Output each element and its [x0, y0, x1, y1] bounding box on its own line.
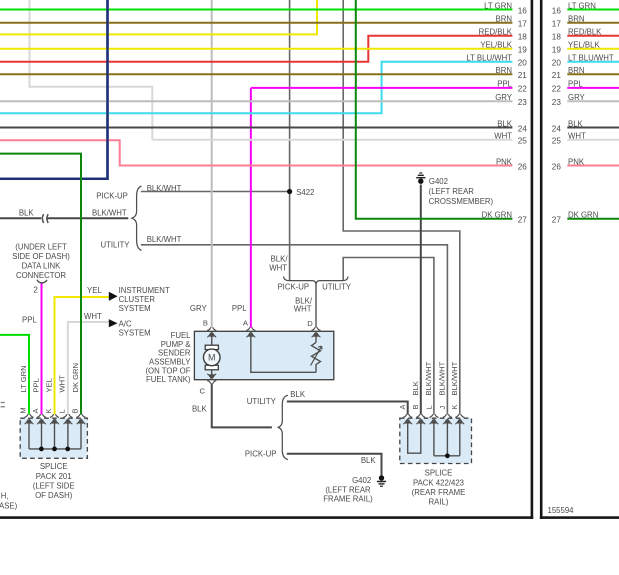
svg-text:FRAME RAIL): FRAME RAIL) [323, 495, 373, 504]
svg-text:PNK: PNK [568, 157, 585, 166]
svg-text:H,: H, [1, 492, 9, 501]
svg-text:PNK: PNK [496, 157, 513, 166]
svg-text:M: M [208, 353, 216, 363]
svg-text:WHT: WHT [269, 263, 287, 272]
svg-text:ASE): ASE) [0, 501, 18, 510]
svg-text:BLK: BLK [192, 405, 208, 414]
svg-text:BLK: BLK [19, 209, 35, 218]
svg-text:BLK/WHT: BLK/WHT [147, 184, 182, 193]
svg-text:16: 16 [518, 6, 528, 15]
svg-text:CONNECTOR: CONNECTOR [16, 271, 66, 280]
svg-text:21: 21 [552, 71, 562, 80]
svg-text:G402: G402 [352, 476, 371, 485]
svg-text:A: A [398, 405, 407, 410]
svg-text:S422: S422 [296, 188, 314, 197]
svg-text:LT BLU/WHT: LT BLU/WHT [568, 54, 614, 63]
svg-text:K: K [44, 409, 53, 414]
svg-text:J: J [438, 406, 447, 410]
svg-text:BRN: BRN [568, 15, 584, 24]
svg-text:20: 20 [518, 59, 528, 68]
svg-text:WHT: WHT [58, 375, 67, 393]
svg-text:PICK-UP: PICK-UP [277, 283, 309, 292]
svg-text:D: D [307, 319, 313, 328]
svg-text:OF DASH): OF DASH) [35, 491, 73, 500]
svg-text:23: 23 [552, 98, 562, 107]
svg-text:27: 27 [518, 216, 528, 225]
svg-text:WHT: WHT [494, 132, 512, 141]
svg-text:BLK/: BLK/ [271, 255, 289, 264]
svg-text:YEL/BLK: YEL/BLK [480, 41, 512, 50]
svg-text:25: 25 [518, 137, 528, 146]
svg-text:(LEFT SIDE: (LEFT SIDE [33, 481, 75, 490]
svg-text:26: 26 [518, 162, 528, 171]
svg-text:SIDE OF DASH): SIDE OF DASH) [12, 252, 70, 261]
svg-text:BRN: BRN [496, 66, 512, 75]
svg-text:K: K [450, 405, 459, 410]
svg-text:SYSTEM: SYSTEM [119, 328, 151, 337]
svg-text:17: 17 [518, 20, 528, 29]
svg-text:WHT: WHT [568, 132, 586, 141]
svg-text:19: 19 [552, 46, 562, 55]
svg-text:A/C: A/C [119, 320, 132, 329]
svg-text:DK GRN: DK GRN [71, 363, 80, 393]
svg-text:PPL: PPL [497, 80, 512, 89]
svg-text:WHT: WHT [84, 312, 102, 321]
svg-text:(REAR FRAME: (REAR FRAME [412, 488, 466, 497]
svg-text:ASSEMBLY: ASSEMBLY [149, 357, 191, 366]
svg-text:YEL: YEL [87, 286, 102, 295]
svg-text:PPL: PPL [31, 378, 40, 392]
svg-text:(LEFT REAR: (LEFT REAR [325, 485, 371, 494]
svg-text:SPLICE: SPLICE [40, 462, 68, 471]
svg-text:155594: 155594 [548, 506, 575, 515]
svg-text:A: A [31, 409, 40, 414]
svg-text:BLK: BLK [290, 390, 306, 399]
svg-text:BLK/WHT: BLK/WHT [92, 209, 127, 218]
svg-text:BLK/WHT: BLK/WHT [450, 361, 459, 395]
svg-text:M: M [19, 407, 28, 413]
svg-text:RED/BLK: RED/BLK [568, 28, 602, 37]
svg-text:2: 2 [33, 286, 38, 295]
svg-text:GRY: GRY [190, 304, 208, 313]
svg-text:B: B [203, 319, 208, 328]
svg-text:GRY: GRY [568, 93, 586, 102]
svg-text:BLK/WHT: BLK/WHT [438, 361, 447, 395]
svg-text:BLK: BLK [411, 381, 420, 395]
svg-text:SYSTEM: SYSTEM [119, 304, 151, 313]
svg-text:BRN: BRN [496, 15, 512, 24]
svg-text:BRN: BRN [568, 66, 584, 75]
svg-text:YEL/BLK: YEL/BLK [568, 41, 600, 50]
svg-text:18: 18 [552, 33, 562, 42]
svg-text:BLK: BLK [568, 119, 584, 128]
svg-text:PACK 201: PACK 201 [36, 472, 72, 481]
svg-text:GRY: GRY [495, 93, 513, 102]
svg-text:UTILITY: UTILITY [247, 397, 277, 406]
svg-text:21: 21 [518, 71, 528, 80]
svg-text:C: C [200, 387, 206, 396]
svg-text:LT GRN: LT GRN [568, 1, 596, 10]
svg-text:26: 26 [552, 162, 562, 171]
svg-text:22: 22 [552, 85, 562, 94]
svg-text:24: 24 [552, 124, 562, 133]
svg-text:UTILITY: UTILITY [322, 283, 352, 292]
svg-text:WHT: WHT [294, 304, 312, 313]
svg-text:RAIL): RAIL) [429, 497, 449, 506]
svg-text:PUMP &: PUMP & [161, 340, 192, 349]
svg-text:22: 22 [518, 85, 528, 94]
svg-text:B: B [71, 409, 80, 414]
svg-text:24: 24 [518, 124, 528, 133]
svg-text:PPL: PPL [568, 80, 583, 89]
svg-text:UTILITY: UTILITY [100, 240, 130, 249]
svg-text:25: 25 [552, 137, 562, 146]
svg-text:RED/BLK: RED/BLK [479, 28, 513, 37]
svg-text:DK GRN: DK GRN [568, 211, 598, 220]
svg-text:PICK-UP: PICK-UP [96, 192, 128, 201]
svg-text:BLK: BLK [361, 456, 377, 465]
svg-text:DATA LINK: DATA LINK [22, 261, 62, 270]
svg-text:17: 17 [552, 20, 562, 29]
svg-text:PPL: PPL [22, 315, 37, 324]
svg-text:18: 18 [518, 33, 528, 42]
svg-text:(UNDER LEFT: (UNDER LEFT [15, 243, 67, 252]
svg-text:BLK/WHT: BLK/WHT [147, 235, 182, 244]
svg-text:16: 16 [552, 6, 562, 15]
svg-text:20: 20 [552, 59, 562, 68]
svg-text:FUEL TANK): FUEL TANK) [146, 375, 191, 384]
svg-text:LT GRN: LT GRN [484, 1, 512, 10]
svg-text:G402: G402 [429, 177, 448, 186]
svg-text:DK GRN: DK GRN [482, 211, 512, 220]
svg-text:BLK: BLK [497, 119, 513, 128]
svg-text:LT BLU/WHT: LT BLU/WHT [466, 54, 512, 63]
svg-text:B: B [411, 405, 420, 410]
svg-text:CLUSTER: CLUSTER [119, 295, 156, 304]
svg-text:PACK 422/423: PACK 422/423 [413, 478, 464, 487]
svg-text:23: 23 [518, 98, 528, 107]
svg-text:19: 19 [518, 46, 528, 55]
svg-text:LT GRN: LT GRN [19, 365, 28, 392]
svg-text:BLK/WHT: BLK/WHT [424, 361, 433, 395]
svg-text:PICK-UP: PICK-UP [245, 450, 277, 459]
svg-text:(ON TOP OF: (ON TOP OF [145, 366, 190, 375]
svg-text:L: L [424, 405, 433, 409]
svg-text:FUEL: FUEL [171, 331, 192, 340]
svg-text:L: L [58, 409, 67, 413]
svg-text:27: 27 [552, 216, 562, 225]
svg-text:YEL: YEL [44, 378, 53, 392]
svg-text:INSTRUMENT: INSTRUMENT [119, 286, 170, 295]
svg-text:PPL: PPL [232, 304, 247, 313]
svg-text:SENDER: SENDER [158, 349, 191, 358]
svg-text:CROSSMEMBER): CROSSMEMBER) [429, 197, 494, 206]
svg-text:(LEFT REAR: (LEFT REAR [429, 187, 475, 196]
svg-text:SPLICE: SPLICE [425, 469, 453, 478]
